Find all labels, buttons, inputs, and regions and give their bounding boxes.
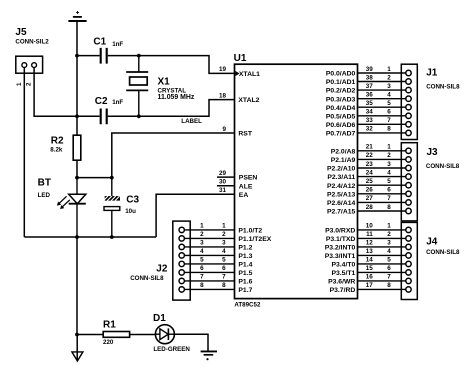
svg-text:8: 8 [222, 282, 226, 289]
wire P3.7/RD to J4 pin 8 [358, 288, 406, 290]
svg-text:11: 11 [366, 231, 373, 238]
IC U1 AT89C52 body [234, 53, 358, 308]
svg-text:6: 6 [387, 265, 391, 272]
wire P2.5/A13 to J3 pin 6 [358, 193, 406, 195]
ground arrow terminal [72, 352, 83, 361]
svg-text:CONN-SIL2: CONN-SIL2 [15, 38, 49, 45]
svg-text:8: 8 [200, 282, 204, 289]
svg-text:D1: D1 [153, 313, 166, 324]
svg-text:39: 39 [366, 66, 374, 73]
svg-text:P1.3: P1.3 [238, 253, 252, 260]
svg-text:1nF: 1nF [112, 41, 123, 48]
svg-text:BT: BT [38, 177, 51, 188]
svg-text:31: 31 [219, 187, 227, 194]
wire J2 pin 7 to P1.6 [185, 280, 235, 282]
svg-text:7: 7 [387, 117, 391, 124]
svg-text:P0.7/AD7: P0.7/AD7 [326, 131, 356, 138]
svg-text:P3.4/T0: P3.4/T0 [331, 262, 355, 269]
wire P2.0/A8 to J3 pin 1 [358, 150, 406, 152]
svg-text:1: 1 [387, 66, 391, 73]
svg-text:P0.4/AD4: P0.4/AD4 [326, 105, 356, 112]
svg-text:6: 6 [222, 265, 226, 272]
svg-text:P0.3/AD3: P0.3/AD3 [326, 96, 356, 103]
wire P0.0/AD0 to J1 pin 1 [358, 72, 406, 74]
svg-text:3: 3 [387, 161, 391, 168]
connector J5 [15, 27, 49, 86]
svg-text:8: 8 [387, 126, 391, 133]
svg-text:C3: C3 [126, 195, 139, 206]
svg-text:14: 14 [366, 257, 374, 264]
svg-text:4: 4 [387, 92, 391, 99]
wire rail up to EA pin 31 [156, 194, 234, 237]
svg-text:1: 1 [16, 82, 23, 86]
svg-text:AT89C52: AT89C52 [234, 302, 261, 309]
svg-text:10: 10 [366, 223, 374, 230]
junction VCC C2 J5.2 [75, 114, 79, 118]
svg-text:XTAL2: XTAL2 [238, 97, 259, 104]
junction C1 X1 top [137, 54, 141, 58]
svg-text:18: 18 [219, 92, 227, 99]
svg-text:2: 2 [200, 231, 204, 238]
svg-text:P0.5/AD5: P0.5/AD5 [326, 113, 356, 120]
svg-text:P3.7/RD: P3.7/RD [330, 287, 356, 294]
svg-text:4: 4 [387, 248, 391, 255]
svg-text:7: 7 [387, 274, 391, 281]
svg-text:35: 35 [366, 100, 374, 107]
svg-text:10u: 10u [125, 208, 136, 215]
svg-text:5: 5 [222, 257, 226, 264]
svg-text:CONN-SIL8: CONN-SIL8 [130, 275, 164, 282]
svg-text:P2.2/A10: P2.2/A10 [327, 166, 356, 173]
svg-text:7: 7 [387, 195, 391, 202]
wire P0.6/AD6 to J1 pin 7 [358, 123, 406, 125]
wire XTAL2 net to pin 18 [139, 100, 234, 117]
svg-text:P0.1/AD1: P0.1/AD1 [326, 79, 356, 86]
svg-text:LED: LED [38, 192, 51, 199]
svg-text:P3.6/WR: P3.6/WR [328, 279, 355, 286]
wire J2 pin 3 to P1.2 [185, 246, 235, 248]
svg-text:P2.1/A9: P2.1/A9 [331, 157, 356, 164]
svg-text:33: 33 [366, 117, 374, 124]
svg-text:P0.2/AD2: P0.2/AD2 [326, 88, 356, 95]
wire P3.2/INT0 to J4 pin 3 [358, 246, 406, 248]
wire J2 pin 2 to P1.1/T2EX [185, 237, 235, 239]
svg-text:7: 7 [200, 274, 204, 281]
svg-text:J5: J5 [15, 27, 27, 38]
connector J3 [401, 143, 417, 221]
junction C2 X1 bottom [137, 114, 141, 118]
svg-text:P0.0/AD0: P0.0/AD0 [326, 71, 356, 78]
svg-text:2: 2 [222, 231, 226, 238]
power terminal + [68, 11, 86, 21]
junction RST node C3 [110, 176, 114, 180]
svg-text:24: 24 [366, 169, 374, 176]
svg-text:J3: J3 [427, 147, 439, 158]
ground bar terminal [201, 351, 217, 360]
svg-text:7: 7 [222, 274, 226, 281]
svg-text:J2: J2 [156, 263, 168, 274]
junction VCC C1 [75, 54, 79, 58]
LED BT [38, 177, 86, 237]
XTAL1 input arrow [235, 71, 239, 76]
wire R1 to D1 [130, 334, 156, 336]
wire P2.7/A15 to J3 pin 8 [358, 210, 406, 212]
svg-text:U1: U1 [234, 53, 247, 64]
svg-text:4: 4 [200, 248, 204, 255]
wire R2 bottom [76, 160, 78, 177]
wire P0.3/AD3 to J1 pin 4 [358, 98, 406, 100]
wire P0.1/AD1 to J1 pin 2 [358, 81, 406, 83]
svg-text:3: 3 [387, 83, 391, 90]
svg-text:2: 2 [26, 82, 33, 86]
svg-text:15: 15 [366, 265, 374, 272]
wire VCC to C1 left [76, 55, 99, 57]
wire J2 pin 6 to P1.5 [185, 271, 235, 273]
svg-text:6: 6 [387, 187, 391, 194]
junction RST node left [75, 176, 79, 180]
wire J2 pin 5 to P1.4 [185, 263, 235, 265]
svg-text:220: 220 [103, 339, 114, 346]
svg-text:28: 28 [366, 204, 374, 211]
svg-text:23: 23 [366, 161, 374, 168]
svg-text:P3.1/TXD: P3.1/TXD [326, 236, 356, 243]
svg-text:P2.4/A12: P2.4/A12 [327, 183, 356, 190]
resistor R2 [50, 135, 80, 160]
wire P3.1/TXD to J4 pin 2 [358, 237, 406, 239]
wire D1 to ground [174, 334, 208, 351]
wire P0.5/AD5 to J1 pin 6 [358, 115, 406, 117]
svg-text:P3.0/RXD: P3.0/RXD [325, 228, 355, 235]
svg-text:30: 30 [219, 179, 227, 186]
wire P3.3/INT1 to J4 pin 4 [358, 254, 406, 256]
svg-text:P2.5/A13: P2.5/A13 [327, 191, 356, 198]
svg-text:1: 1 [222, 223, 226, 230]
svg-text:6: 6 [200, 265, 204, 272]
junction rail C3 [110, 235, 114, 239]
wire VCC rail vertical [76, 22, 78, 135]
connector J4 [401, 222, 417, 299]
svg-text:X1: X1 [158, 77, 171, 88]
svg-text:34: 34 [366, 109, 374, 116]
svg-text:P1.4: P1.4 [238, 262, 252, 269]
svg-text:3: 3 [222, 240, 226, 247]
wire P0.4/AD4 to J1 pin 5 [358, 106, 406, 108]
crystal X1 [126, 56, 195, 117]
svg-text:32: 32 [366, 126, 374, 133]
svg-text:37: 37 [366, 83, 374, 90]
connector J1 [401, 64, 417, 139]
wire P3.0/RXD to J4 pin 1 [358, 229, 406, 231]
wire to ground arrow tip [76, 335, 78, 361]
svg-text:4: 4 [222, 248, 226, 255]
wire XTAL1 net to pin 19 [139, 56, 234, 74]
wire P2.3/A11 to J3 pin 4 [358, 176, 406, 178]
svg-text:21: 21 [366, 144, 374, 151]
svg-text:P1.5: P1.5 [238, 270, 252, 277]
svg-text:R1: R1 [103, 320, 116, 331]
capacitor C3 [103, 178, 139, 237]
svg-text:1: 1 [387, 223, 391, 230]
svg-text:C2: C2 [95, 96, 108, 107]
wire bottom rail [24, 236, 156, 238]
svg-text:LABEL: LABEL [181, 118, 202, 125]
svg-text:5: 5 [387, 257, 391, 264]
svg-text:R2: R2 [51, 135, 64, 146]
wire P2.4/A12 to J3 pin 5 [358, 184, 406, 186]
svg-text:5: 5 [387, 100, 391, 107]
svg-text:4: 4 [387, 169, 391, 176]
svg-text:XTAL1: XTAL1 [239, 71, 260, 78]
resistor R1 [103, 320, 130, 347]
svg-text:9: 9 [222, 126, 226, 133]
capacitor C1 [93, 36, 123, 63]
svg-text:P1.6: P1.6 [238, 279, 252, 286]
svg-text:5: 5 [200, 257, 204, 264]
wire VCC to C2 left [76, 115, 99, 117]
svg-text:1: 1 [387, 144, 391, 151]
svg-text:16: 16 [366, 274, 374, 281]
svg-text:P1.0/T2: P1.0/T2 [238, 228, 262, 235]
svg-text:8: 8 [387, 204, 391, 211]
connector J2 [130, 221, 190, 300]
svg-text:8.2k: 8.2k [50, 146, 63, 153]
LED D1 [153, 313, 190, 353]
svg-text:P1.2: P1.2 [238, 245, 252, 252]
wire P3.6/WR to J4 pin 7 [358, 280, 406, 282]
svg-text:29: 29 [219, 170, 227, 177]
svg-text:CONN-SIL8: CONN-SIL8 [426, 163, 460, 170]
svg-text:3: 3 [200, 240, 204, 247]
svg-text:38: 38 [366, 74, 374, 81]
svg-text:LED-GREEN: LED-GREEN [153, 346, 190, 353]
wire P2.6/A14 to J3 pin 7 [358, 201, 406, 203]
svg-text:CONN-SIL8: CONN-SIL8 [426, 249, 460, 256]
wire RST to pin 9 [112, 133, 234, 178]
wire ALE stub pin 30 [217, 185, 234, 187]
svg-text:P2.6/A14: P2.6/A14 [327, 200, 356, 207]
svg-text:22: 22 [366, 152, 374, 159]
svg-text:2: 2 [387, 152, 391, 159]
svg-text:P2.3/A11: P2.3/A11 [327, 174, 355, 181]
svg-text:P3.3/INT1: P3.3/INT1 [325, 253, 356, 260]
svg-text:P2.7/A15: P2.7/A15 [327, 209, 356, 216]
wire J5 pin2 to VCC node [34, 68, 76, 117]
svg-text:26: 26 [366, 187, 374, 194]
wire P3.4/T0 to J4 pin 5 [358, 263, 406, 265]
wire J2 pin 4 to P1.3 [185, 254, 235, 256]
svg-text:P3.2/INT0: P3.2/INT0 [325, 245, 356, 252]
wire P0.7/AD7 to J1 pin 8 [358, 132, 406, 134]
svg-text:12: 12 [366, 240, 374, 247]
wire P2.1/A9 to J3 pin 2 [358, 158, 406, 160]
BT emission arrows [59, 196, 66, 203]
wire C1 right [108, 55, 139, 57]
svg-text:J4: J4 [426, 237, 438, 248]
svg-text:C1: C1 [93, 36, 106, 47]
svg-text:19: 19 [219, 66, 227, 73]
svg-text:27: 27 [366, 195, 374, 202]
wire PSEN stub pin 29 [217, 176, 234, 178]
svg-text:P2.0/A8: P2.0/A8 [331, 148, 356, 155]
wire C2 right [108, 115, 139, 117]
svg-text:11.059 MHz: 11.059 MHz [158, 94, 195, 101]
junction rail BT [75, 235, 79, 239]
svg-text:CONN-SIL8: CONN-SIL8 [426, 84, 460, 91]
wire P3.5/T1 to J4 pin 6 [358, 271, 406, 273]
svg-text:J1: J1 [426, 68, 438, 79]
svg-text:RST: RST [238, 131, 252, 138]
capacitor C2 [95, 96, 124, 124]
wire J2 pin 8 to P1.7 [185, 288, 235, 290]
wire P2.2/A10 to J3 pin 3 [358, 167, 406, 169]
svg-text:P1.7: P1.7 [238, 287, 252, 294]
svg-text:1nF: 1nF [112, 99, 123, 106]
wire J2 pin 1 to P1.0/T2 [185, 229, 235, 231]
svg-text:PSEN: PSEN [239, 175, 258, 182]
svg-text:25: 25 [366, 178, 374, 185]
wire R1 left [77, 334, 103, 336]
svg-text:13: 13 [366, 248, 374, 255]
wire RST node horizontal [77, 177, 112, 179]
svg-text:P0.6/AD6: P0.6/AD6 [326, 122, 356, 129]
junction R1 node [75, 333, 79, 337]
svg-text:ALE: ALE [239, 183, 253, 190]
svg-text:1: 1 [200, 223, 204, 230]
svg-text:6: 6 [387, 109, 391, 116]
svg-text:3: 3 [387, 240, 391, 247]
svg-text:EA: EA [239, 192, 249, 199]
svg-text:8: 8 [387, 282, 391, 289]
wire J5 pin1 down to bottom rail [23, 68, 25, 238]
svg-text:5: 5 [387, 178, 391, 185]
svg-text:P3.5/T1: P3.5/T1 [331, 270, 355, 277]
wire P0.2/AD2 to J1 pin 3 [358, 89, 406, 91]
svg-text:2: 2 [387, 74, 391, 81]
svg-text:36: 36 [366, 92, 374, 99]
svg-text:P1.1/T2EX: P1.1/T2EX [238, 236, 271, 243]
wire rail down to R1 node [76, 237, 78, 335]
svg-text:17: 17 [366, 282, 374, 289]
svg-text:2: 2 [387, 231, 391, 238]
